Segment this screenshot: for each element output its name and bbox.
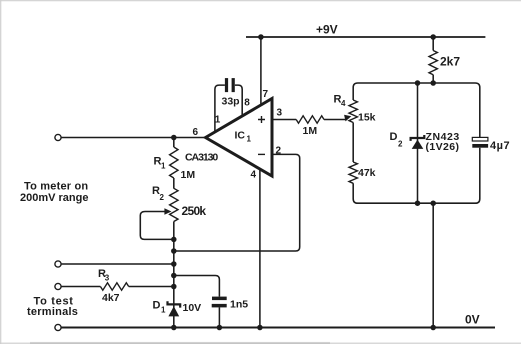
svg-text:2k7: 2k7 — [440, 55, 460, 69]
wire upper node line — [353, 83, 480, 137]
wire 15k to 47k — [352, 123, 354, 163]
wire 33p right lead to pin 8 — [235, 85, 242, 115]
node junction wire1 column — [171, 261, 177, 267]
node junction D1 on 0V rail — [171, 325, 177, 331]
wire pin 2 feedback — [174, 154, 300, 251]
wire terminal 1 — [61, 263, 174, 265]
potentiometer R4 15k zigzag — [349, 100, 357, 123]
diode D1 triangle — [168, 306, 179, 316]
resistor R2 250k zigzag — [170, 188, 178, 221]
svg-text:4: 4 — [251, 170, 257, 181]
wire D2 branch — [417, 83, 419, 203]
node junction lower node down-wire — [430, 200, 436, 206]
wire 1M to R4 wiper — [324, 119, 346, 121]
wire lower node to 0V rail — [432, 203, 434, 327]
terminal 1 (open circle) — [55, 261, 61, 267]
svg-text:(1V26): (1V26) — [426, 141, 460, 153]
wire R3 to column — [129, 286, 174, 288]
node +9V rail wire — [246, 36, 485, 38]
node 0V rail wire — [61, 327, 495, 329]
terminal 2 (open circle) — [55, 283, 61, 289]
wire lower node line — [353, 148, 480, 203]
node junction wire2 column — [171, 284, 177, 290]
svg-text:2: 2 — [398, 140, 403, 149]
svg-text:1: 1 — [215, 115, 221, 126]
svg-text:To meter on: To meter on — [24, 181, 88, 193]
wire pin 4 to 0V rail — [259, 169, 261, 328]
op-amp IC1 CA3130 triangle — [206, 99, 273, 177]
svg-text:1: 1 — [161, 162, 166, 171]
svg-text:2: 2 — [160, 193, 165, 202]
svg-text:4k7: 4k7 — [102, 292, 120, 304]
svg-text:0V: 0V — [465, 313, 480, 327]
svg-text:1: 1 — [247, 135, 252, 144]
svg-text:D: D — [153, 300, 161, 312]
svg-text:CA3130: CA3130 — [185, 152, 218, 164]
wiper arrow of R4 — [344, 115, 351, 122]
wire rail to 2k7 — [432, 37, 434, 51]
wire R2 wiper loop — [140, 212, 174, 240]
svg-text:IC: IC — [235, 130, 246, 142]
node junction D2 upper — [415, 80, 421, 86]
wire 2k7 to upper node — [432, 75, 434, 83]
svg-text:1M: 1M — [181, 169, 196, 181]
capacitor 33p plates — [225, 78, 228, 92]
node junction pin7 on +9V rail — [258, 34, 264, 40]
node junction feedback to column — [171, 248, 177, 254]
node junction 2k7 on rail — [430, 34, 436, 40]
node junction D2 lower — [415, 200, 421, 206]
node junction 1n5 on 0V rail — [217, 325, 223, 331]
svg-text:200mV range: 200mV range — [20, 192, 88, 204]
diode D2 zener cathode bar — [411, 135, 425, 141]
svg-text:10V: 10V — [183, 302, 202, 314]
svg-text:+9V: +9V — [316, 23, 338, 37]
op-amp minus input marking — [258, 153, 265, 155]
resistor 47k zigzag — [349, 162, 357, 183]
node junction down-wire on 0V rail — [430, 325, 436, 331]
capacitor 4u7 plates — [472, 137, 488, 141]
resistor 2k7 zigzag — [429, 51, 437, 75]
border frame (scan edge) — [0, 0, 521, 2]
resistor R3 4k7 zigzag — [100, 283, 128, 290]
wire R1 to R2 — [173, 178, 175, 189]
wiper arrow of R2 — [145, 211, 166, 213]
svg-text:3: 3 — [105, 274, 110, 283]
svg-text:D: D — [390, 131, 398, 143]
svg-text:1n5: 1n5 — [230, 299, 248, 311]
svg-text:8: 8 — [244, 98, 250, 109]
svg-text:33p: 33p — [222, 96, 240, 108]
diode D1 zener cathode bar — [168, 301, 181, 307]
resistor 1M (series, horizontal) — [296, 116, 324, 123]
svg-text:4: 4 — [341, 99, 346, 108]
svg-text:4µ7: 4µ7 — [490, 140, 510, 152]
svg-text:6: 6 — [193, 127, 199, 138]
wire input to op-amp — [61, 137, 205, 139]
node junction 1n5 branch — [171, 273, 177, 279]
terminal input (open circle) — [55, 134, 61, 140]
wire R2 bottom to column — [173, 222, 175, 328]
svg-text:250k: 250k — [182, 204, 207, 218]
wire pin 7 to +9V rail — [260, 37, 262, 105]
wire terminal 2 left of R3 — [61, 286, 100, 288]
node junction 2k7 upper node — [430, 80, 436, 86]
wire 1n5 to 0V rail — [218, 307, 220, 327]
svg-text:7: 7 — [263, 89, 269, 100]
wire 33p left lead to pin 1 — [215, 85, 225, 131]
terminal 3 (open circle) on 0V — [55, 324, 61, 330]
svg-text:47k: 47k — [358, 167, 376, 179]
diode D2 triangle — [412, 140, 424, 149]
resistor R1 1M zigzag — [170, 147, 178, 178]
svg-text:15k: 15k — [358, 112, 376, 124]
svg-text:terminals: terminals — [27, 306, 78, 318]
svg-text:1: 1 — [161, 306, 166, 315]
wire column to 1n5 — [174, 276, 220, 297]
node junction wiper to column — [171, 237, 177, 243]
wire column R1 top — [173, 138, 175, 148]
svg-text:3: 3 — [277, 108, 283, 119]
node junction at R1 top — [171, 135, 177, 141]
op-amp plus input marking — [258, 116, 265, 123]
node junction pin4 on 0V rail — [257, 325, 263, 331]
svg-text:1M: 1M — [303, 125, 318, 137]
wire pin 3 output — [272, 119, 296, 121]
capacitor 1n5 plates — [212, 297, 227, 301]
